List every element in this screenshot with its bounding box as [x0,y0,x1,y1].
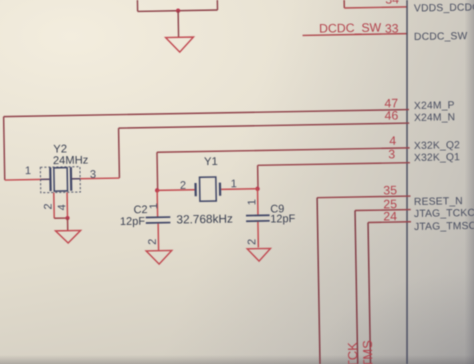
crystal Y2 right stub [72,178,80,180]
svg-text:24: 24 [383,209,397,223]
wire C2 top [156,190,158,216]
svg-text:X32K_Q1: X32K_Q1 [414,152,460,164]
wire X24M_P net pin 47 [4,110,409,117]
svg-text:4: 4 [389,134,396,148]
wire C2 bottom [157,224,159,250]
wire RESET_N net pin 35 [317,196,410,198]
svg-text:JTAG_TCK: JTAG_TCK [345,342,361,364]
wire Y1 pin 1 [221,188,257,191]
wire top-right decoupling net vertical [216,0,218,10]
capacitor C2 bottom plate [146,222,171,224]
svg-text:DCDC_SW: DCDC_SW [319,21,382,36]
svg-text:1: 1 [246,199,258,205]
svg-text:2: 2 [147,239,159,245]
svg-text:24MHz: 24MHz [53,154,89,167]
svg-text:34: 34 [385,0,399,7]
wire C9 bottom [257,222,259,248]
wire Y2 pin 1 [5,178,51,181]
wire Y2 pin 3 [71,177,119,180]
svg-text:1: 1 [25,165,31,177]
svg-text:4: 4 [56,204,68,210]
svg-text:1: 1 [231,178,237,190]
junction Y1 right [255,187,259,191]
svg-text:VDDS_DCDC: VDDS_DCDC [414,2,474,14]
svg-text:3: 3 [90,169,96,181]
svg-text:1: 1 [148,203,160,209]
ground top center [166,37,194,52]
svg-text:35: 35 [383,183,397,197]
crystal Y1 left plate [194,183,196,196]
svg-text:12pF: 12pF [270,213,296,225]
wire top decoupling net horizontal [138,10,218,11]
wire JTAG_TCK net pin 25 [355,209,411,212]
wire pin 33 DCDC_SW stub [303,34,408,36]
wire top-left decoupling net vertical left [136,0,138,11]
svg-text:X24M_N: X24M_N [414,112,455,124]
svg-text:C2: C2 [133,204,147,216]
wire Y2 pin2 to pin4 bottom [54,217,67,219]
svg-text:X32K_Q2: X32K_Q2 [414,140,460,152]
capacitor C9 top plate [246,214,270,216]
svg-text:12pF: 12pF [120,216,146,228]
svg-text:JTAG_TCKC: JTAG_TCKC [414,208,474,220]
wire Y2 pin 2 drop [53,193,55,219]
wire X32K_Q2 drop to Y1 pin2 [156,152,159,190]
wire X24M_N net pin 46 [119,123,410,128]
junction Y1 left [155,188,159,192]
wire C9 top [257,189,259,215]
wire JTAG_TMS net pin 24 [368,221,411,224]
svg-text:Y2: Y2 [53,143,67,155]
svg-text:2: 2 [246,239,258,245]
crystal Y1 right plate [219,183,221,196]
crystal Y2 right plate [70,167,73,191]
svg-text:X24M_P: X24M_P [414,100,455,112]
wire pin 34 to IC [344,7,407,8]
svg-text:3: 3 [388,147,395,161]
wire X24M_P left drop [4,117,5,180]
svg-text:46: 46 [384,108,398,122]
wire RESET_N vertical [317,198,320,364]
crystal Y2 body rect [54,168,68,191]
capacitor C2 top plate [146,216,171,218]
ground C2 [146,250,172,264]
junction Y2 ground [65,216,69,220]
wire X32K_Q2 net pin 4 [157,148,410,152]
wire JTAG_TMS vertical [368,223,370,364]
IC U1 left border [401,0,414,364]
wire pin 34 net vertical [343,0,345,8]
wire X24M_N drop to Y2 pin3 [118,128,121,178]
svg-text:JTAG_TMSC: JTAG_TMSC [414,221,474,233]
junction top center [176,8,180,12]
wire X32K_Q1 drop to Y1 pin1 [257,165,259,188]
wire Y1 pin 2 [157,189,194,192]
ground C9 [247,248,271,261]
crystal Y2 left stub [41,178,50,180]
crystal Y2 left plate [49,167,52,191]
wire JTAG_TCK vertical [355,211,358,364]
wire Y2 pin 4 drop [66,192,68,218]
wire X32K_Q1 net pin 3 [258,163,410,166]
svg-text:JTAG_TMS: JTAG_TMS [360,340,376,364]
svg-text:2: 2 [180,180,186,192]
svg-text:32.768kHz: 32.768kHz [176,212,233,227]
crystal Y2 dashed case [40,167,80,193]
svg-text:2: 2 [43,203,55,209]
crystal Y1 body rect [200,177,217,201]
ground Y2 [56,230,81,243]
svg-text:Y1: Y1 [204,156,218,168]
svg-text:DCDC_SW: DCDC_SW [414,31,468,43]
wire ground drop from junction [177,11,179,38]
svg-text:33: 33 [385,22,399,36]
capacitor C9 bottom plate [246,220,270,222]
svg-text:RESET_N: RESET_N [414,196,463,208]
wire Y2 junction to ground [67,218,69,231]
